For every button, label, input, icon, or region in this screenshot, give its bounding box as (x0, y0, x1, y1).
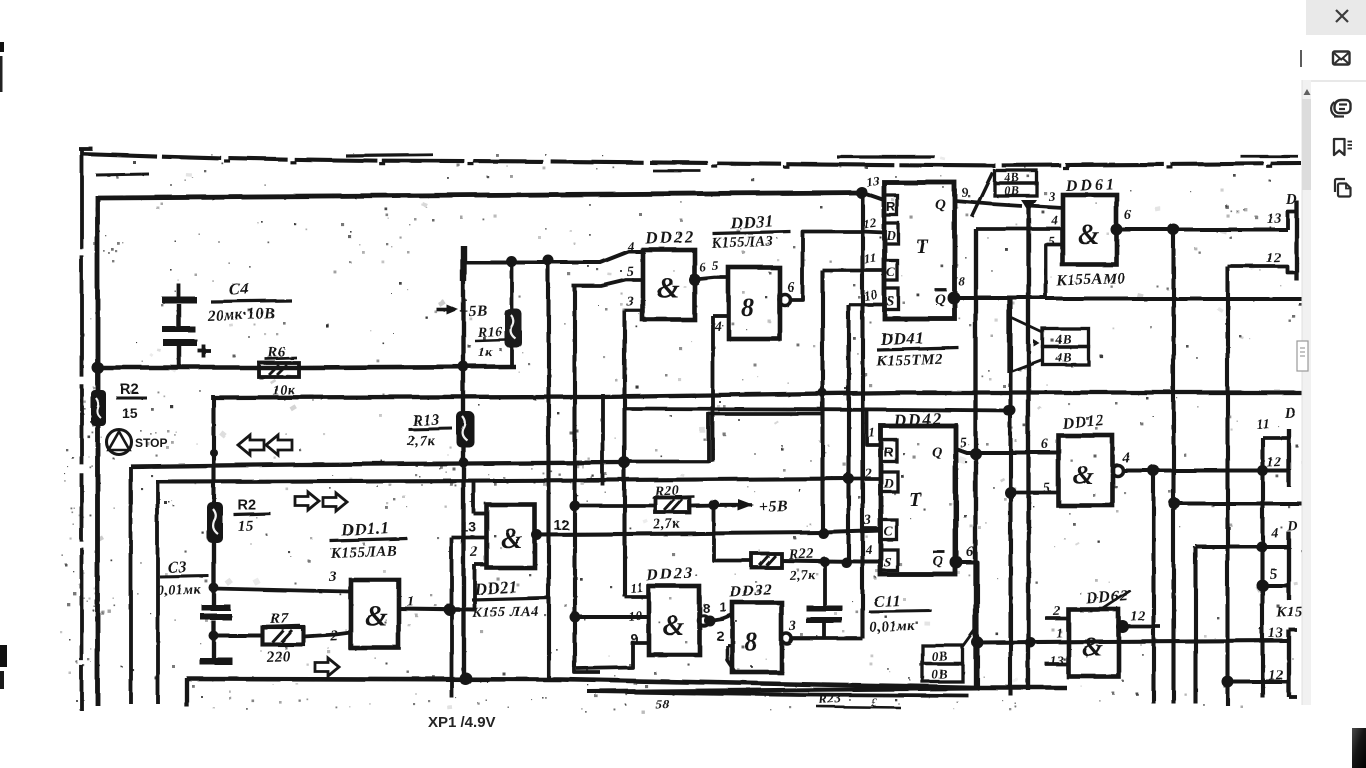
gate DD1.2 & symbol (1072, 459, 1093, 489)
svg-text:13: 13 (1268, 625, 1284, 641)
wire R20 row (574, 503, 655, 507)
pin label 12 DD41 (861, 214, 877, 231)
svg-text:9: 9 (961, 184, 969, 199)
svg-text:К155ЛАВ: К155ЛАВ (329, 543, 397, 561)
label DD21 (471, 577, 549, 621)
pin label 6 DD61 (1124, 208, 1132, 223)
gate DD3.1 & symbol (741, 293, 754, 322)
junction dot y480 x848 (843, 473, 854, 484)
STOP symbol (107, 430, 168, 455)
svg-text:D: D (1284, 191, 1297, 207)
svg-text:6: 6 (1124, 208, 1132, 223)
svg-text:R2: R2 (119, 380, 138, 397)
svg-text:5: 5 (959, 435, 967, 450)
pin label 12 T4 (1268, 667, 1284, 683)
svg-text:15: 15 (121, 404, 137, 420)
label R2 mid (233, 497, 270, 534)
label +5V top (436, 302, 488, 320)
svg-text:12: 12 (553, 516, 569, 532)
pin label 9 DD23 (630, 631, 638, 646)
junction dot DD22 out (688, 273, 700, 285)
svg-text:К155 ЛА4: К155 ЛА4 (471, 603, 539, 621)
pin label 1 DD1.1 (406, 593, 415, 609)
junction dot x548 top (543, 255, 554, 266)
label DD32 (727, 581, 772, 600)
wire vert x130 (128, 466, 132, 703)
wire y546 (1195, 544, 1288, 548)
callout stem x1008 (1006, 297, 1009, 372)
box T4 right edge (1288, 629, 1296, 696)
svg-text:D: D (885, 227, 896, 242)
svg-text:R16: R16 (476, 324, 502, 340)
wire +5V row y262 (463, 251, 642, 262)
pin label 5 DD61 (1048, 233, 1056, 248)
junction dot C3 top (208, 582, 218, 592)
wire DD1.1 pin3 (213, 588, 350, 591)
svg-text:12: 12 (1130, 608, 1146, 624)
pin label 4 DD61 (1050, 212, 1059, 227)
pin label 5 DD12 (1043, 481, 1051, 496)
arrow +5V mid (719, 485, 801, 515)
wire y642 long (977, 640, 1286, 642)
flipflop DD4.2 S cell (880, 549, 897, 570)
label DD61 (1064, 175, 1117, 194)
junction dot x1262 y470 (1257, 465, 1268, 476)
svg-text:DD23: DD23 (644, 562, 694, 584)
pin label 1 DD62 (1056, 625, 1064, 640)
gate DD3.1 box (728, 267, 779, 338)
wire DD32 pin2 (727, 645, 735, 672)
label K155AM0 (1055, 270, 1126, 289)
wire DD22 pin3 stub (624, 308, 642, 312)
label C3 (156, 558, 208, 598)
wire y635 R7 row (213, 632, 350, 636)
pin label 13 DD41 (864, 172, 880, 189)
label R2 left (115, 380, 146, 420)
svg-text:T: T (908, 488, 921, 510)
pin label 5 DD22 (626, 264, 634, 279)
svg-text:1: 1 (1056, 625, 1064, 640)
wire DD61 pin5 riser (1045, 244, 1062, 297)
svg-text:Q: Q (934, 291, 945, 307)
junction dot x1261 y546 (1256, 541, 1267, 552)
svg-text:4В: 4В (1054, 348, 1072, 364)
annotation bubble icon (1331, 100, 1350, 117)
pin label 6 DD12 (1041, 437, 1049, 452)
junction dot Qbar DD41 (947, 291, 960, 304)
junction dot y462 x624 (618, 456, 630, 468)
junction dot x1030 y642 (1025, 637, 1036, 648)
label R16 (474, 324, 505, 359)
flipflop DD4.2 Qbar label (932, 551, 944, 569)
hollow arrow left 1 (238, 435, 264, 455)
gate DD2.2 box (642, 249, 694, 319)
pin label 3 DD61 (1047, 188, 1056, 203)
box T2 right edge (1256, 405, 1296, 486)
svg-text:1: 1 (868, 424, 876, 439)
gate DD3.2 & symbol (744, 627, 757, 656)
overlay text XP1 (428, 714, 496, 731)
gate DD6.1 box (1062, 194, 1116, 264)
wire line y462 (130, 462, 624, 466)
pin label 4 DD22 (626, 238, 635, 253)
label D T1 (1284, 191, 1297, 207)
flipflop DD4.1 R cell (884, 195, 897, 215)
flipflop DD4.2 D cell (880, 471, 897, 491)
callout diag 0B (962, 625, 978, 647)
svg-text:2: 2 (863, 466, 872, 481)
svg-text:S: S (886, 294, 894, 309)
wire vert x157 (155, 481, 159, 703)
flipflop DD4.2 box (880, 425, 955, 574)
pin label 2 DD1.1 (329, 628, 339, 644)
bottom border left leg (184, 677, 188, 706)
gate DD2.1 & symbol (500, 523, 522, 554)
junction dot R7 left (208, 630, 218, 640)
svg-text:11: 11 (862, 249, 877, 266)
svg-text:R2: R2 (237, 497, 256, 513)
label C4 (206, 278, 291, 324)
label DD12 (1060, 412, 1105, 432)
wire x574 top corner (571, 279, 642, 285)
titlebar gray band (1306, 0, 1366, 35)
inner border left line (95, 195, 100, 705)
pin label 2 DD42 (863, 466, 872, 481)
pin label 4 DD12 (1121, 450, 1131, 466)
wire DD31 out (790, 231, 884, 299)
copy icon (1335, 179, 1351, 197)
wire vert rail x213 upper (211, 397, 215, 501)
envelope icon (1333, 52, 1350, 65)
junction dot x846 y562 (841, 557, 852, 568)
wire DD1.1 out (398, 608, 474, 609)
wire line y480 (155, 478, 848, 481)
pin label 2 DD21 (469, 544, 479, 560)
svg-text:8: 8 (741, 293, 754, 322)
capacitor C11 (806, 563, 842, 638)
gate DD3.2 box (732, 602, 781, 672)
junction dot x977 y642 (971, 636, 983, 648)
svg-text:0,01мк: 0,01мк (869, 617, 915, 635)
pin label 12 DD21 (553, 516, 569, 532)
pin label 9 DD41 (961, 184, 969, 199)
sidebar background (1311, 0, 1366, 768)
junction dot y262 x511 (506, 256, 517, 267)
scrollbar thumb (1302, 99, 1312, 190)
wire vert rail x548 (546, 260, 550, 679)
gate DD2.1 box (486, 504, 534, 567)
wire vert x1227 (1225, 266, 1229, 705)
junction dot DD61 out (1110, 223, 1122, 235)
pin label 6 DD31 (787, 280, 795, 295)
wire vert x975 (DD61 pin4 rail) (973, 228, 977, 690)
pin label 4 DD42 (864, 541, 873, 556)
svg-text:8: 8 (958, 273, 966, 288)
svg-text:1: 1 (719, 599, 726, 614)
svg-text:0В: 0В (931, 647, 948, 663)
pin label 6 DD42 (966, 544, 975, 560)
resistor R22 (751, 553, 781, 567)
pin label 1 DD42 (868, 424, 876, 439)
svg-text:2: 2 (329, 628, 339, 644)
wire DD23-DD32 (709, 614, 732, 620)
scrollbar small box (1297, 341, 1308, 371)
svg-text:T: T (915, 235, 928, 257)
pin label 2 DD32 (716, 628, 724, 643)
svg-text:DD1.1: DD1.1 (339, 517, 389, 539)
wire DD62 pin13 (1045, 662, 1068, 666)
svg-text:4: 4 (1121, 450, 1131, 466)
wire y585 (1262, 583, 1288, 587)
pin label 8 DD23 (702, 600, 709, 615)
label DD42 (891, 408, 942, 429)
svg-text:S: S (883, 555, 891, 570)
label R6 (264, 343, 296, 398)
svg-text:DD32: DD32 (727, 581, 772, 600)
callout boxes 4B-4B (1033, 328, 1088, 364)
wire DD61 pin4 (975, 226, 1062, 230)
svg-text:1: 1 (469, 491, 477, 506)
wire long line y394 (212, 392, 1301, 397)
svg-text:R13: R13 (411, 411, 440, 429)
gate DD2.3 out circle (698, 615, 708, 625)
bottom border line (186, 678, 1066, 687)
callout diag 2 (1008, 359, 1042, 372)
pin label 1 DD32 (719, 599, 726, 614)
pin label 1 DD21 (469, 491, 477, 506)
wire y503 (1174, 501, 1301, 505)
pin label 13 DD21 (460, 518, 476, 534)
outer frame left dash border (78, 148, 92, 710)
svg-text:D: D (1286, 519, 1298, 534)
flipflop DD4.2 Q label (931, 444, 942, 460)
svg-text:13: 13 (460, 518, 476, 534)
wire vert x848 (846, 304, 850, 563)
wire vert x1152 (1151, 470, 1155, 703)
svg-text:3: 3 (863, 513, 872, 528)
resistor R20 (655, 497, 689, 512)
svg-text:12: 12 (861, 214, 877, 231)
svg-text:+5В: +5В (758, 497, 788, 515)
svg-text:3: 3 (1047, 188, 1056, 203)
flipflop DD4.2 R cell (880, 439, 896, 461)
svg-text:&: & (662, 610, 684, 641)
svg-text:C: C (886, 264, 895, 279)
svg-text:0В: 0В (931, 665, 948, 681)
svg-text:+5В: +5В (459, 302, 488, 320)
wire DD22 out (694, 277, 728, 279)
label DD62 (1084, 587, 1130, 611)
wire vert rail x463 (+5V rail) (461, 262, 465, 678)
scan edge mark (1300, 50, 1302, 67)
svg-text:DD61: DD61 (1064, 175, 1117, 194)
ground bar C3 (199, 657, 232, 664)
resistor R6 (258, 362, 298, 376)
svg-text:DD42: DD42 (891, 408, 942, 429)
svg-text:R23: R23 (816, 689, 841, 706)
junction dot x1010 y492 (1004, 486, 1016, 498)
gate DD6.2 box (1068, 609, 1118, 676)
pin label 10 DD41 (862, 286, 878, 303)
slash mark on Q wire (971, 172, 992, 216)
svg-text:13: 13 (1266, 210, 1282, 226)
junction dot x824 y561 (819, 556, 829, 566)
svg-text:10к: 10к (272, 382, 296, 398)
svg-text:&: & (656, 271, 679, 304)
svg-text:4: 4 (1050, 212, 1059, 227)
junction dot bus left (91, 361, 103, 373)
svg-text:STOP: STOP (135, 436, 167, 450)
wire vert rail x574 (572, 285, 576, 667)
gate DD1.2 out circle (1112, 465, 1123, 476)
pin label 3 DD32 (788, 619, 797, 634)
junction dot x1153 y470 (1147, 464, 1159, 476)
svg-text:3: 3 (327, 568, 336, 584)
gate DD3.2 out circle (781, 633, 791, 643)
wire DD61 pin3 (1028, 205, 1062, 207)
svg-text:0,01мк: 0,01мк (156, 581, 201, 598)
svg-text:11: 11 (1256, 416, 1270, 431)
junction dot x574 y616 (569, 611, 580, 622)
callout diag 1 (1008, 316, 1042, 332)
wire vert x862 long (860, 194, 864, 638)
capacitor C3 (200, 604, 231, 658)
svg-text:6: 6 (787, 280, 795, 295)
svg-text:DD21: DD21 (472, 577, 517, 598)
wire vert x602 segment (600, 393, 604, 485)
wire D-pin stub (848, 476, 881, 480)
pin label 11 DD23 (629, 579, 644, 595)
wire R16 stem (509, 261, 513, 366)
svg-text:&: & (1077, 219, 1099, 250)
junction dot x1174 y503 (1168, 497, 1180, 509)
left edge mark 2 (0, 56, 3, 92)
callout boxes 4B-0B top (994, 169, 1036, 197)
svg-text:DD41: DD41 (878, 327, 923, 348)
pin label 13 T1 (1266, 210, 1282, 226)
bottom partial text scraps (655, 689, 900, 711)
wire corner at x212 (210, 394, 214, 399)
junction dot x1227 y681 (1221, 675, 1233, 687)
svg-text:&: & (1081, 631, 1102, 661)
pin label 13 DD62 (1050, 653, 1065, 668)
junction triangle at x1028 (1020, 199, 1036, 211)
wire vert x1028 (1026, 205, 1030, 690)
label DD1.1 (329, 517, 407, 561)
junction dot DD1.1 out (443, 603, 455, 615)
svg-text:58: 58 (655, 696, 670, 711)
label R22 (787, 545, 816, 582)
wire DD42 C pin stub (860, 526, 880, 530)
wire vert x1173 (1171, 229, 1175, 703)
left edge mark 1 (0, 42, 4, 52)
bookmark icon (1334, 139, 1352, 155)
outer frame top dash-dot border (80, 153, 1310, 174)
label DD22 (643, 226, 694, 247)
pin label 12 T1 (1266, 250, 1282, 266)
capacitor C4 plates (161, 283, 197, 367)
svg-text:5: 5 (712, 258, 720, 273)
wire DD23 pin10 (574, 614, 648, 618)
svg-text:4: 4 (713, 319, 722, 334)
wire Q out DD41 (954, 200, 1021, 205)
gate DD6.2 & symbol (1081, 631, 1102, 661)
svg-text:&: & (364, 599, 387, 632)
svg-text:С4: С4 (227, 278, 248, 298)
junction dot DD42 Qbar (950, 556, 963, 569)
svg-text:C: C (883, 523, 893, 538)
svg-text:К155ТМ2: К155ТМ2 (875, 351, 943, 369)
sidebar separator (1311, 80, 1366, 82)
junction dot x822 y392 (818, 388, 827, 397)
svg-text:4: 4 (864, 541, 873, 556)
+5V terminal bar (460, 245, 466, 281)
label K15 bottom (1275, 603, 1302, 620)
gate DD2.3 box (648, 586, 699, 654)
label DD41 (875, 327, 958, 369)
wire vert x866 R-pin (866, 410, 881, 444)
label DD23 (644, 562, 694, 584)
svg-text:220: 220 (265, 648, 291, 665)
pin label 3 DD42 (863, 513, 872, 528)
flipflop DD4.2 T letter (908, 488, 921, 510)
close icon (1336, 10, 1348, 22)
svg-text:15: 15 (237, 517, 254, 534)
black corner block (1352, 728, 1366, 768)
gate DD6.1 & symbol (1077, 219, 1099, 250)
wire line y408 (624, 408, 1008, 410)
pin label 5 DD42 (959, 435, 967, 450)
svg-text:К15: К15 (1275, 603, 1302, 620)
label R20 (652, 483, 694, 532)
svg-text:2: 2 (469, 544, 479, 560)
svg-text:Q: Q (934, 196, 945, 212)
wire R20 right (689, 504, 751, 505)
hollow arrow right 1 (295, 492, 319, 510)
flipflop DD4.1 Qbar label (934, 289, 946, 307)
flipflop DD4.1 T letter (915, 235, 928, 257)
wire DD42 Qbar path (587, 562, 977, 691)
junction dot x1173 y229 (1167, 223, 1179, 235)
junction dot bus at +5V rail (458, 361, 469, 372)
junction blob x213 (209, 448, 217, 456)
svg-text:5: 5 (1048, 233, 1056, 248)
svg-text:D: D (882, 475, 893, 490)
svg-text:DD12: DD12 (1060, 412, 1105, 432)
wire R20-R22 link (713, 504, 751, 560)
pin label 4 DD31 (713, 319, 722, 334)
wire C3 chain (211, 542, 215, 605)
wire Qbar long line y297 (1045, 296, 1301, 300)
gate DD1.1 box (350, 579, 398, 647)
svg-text:20мк·10В: 20мк·10В (206, 305, 275, 324)
inner border top line (97, 192, 861, 197)
wire Qbar out DD41 (948, 295, 1045, 299)
gate DD2.2 & symbol (656, 271, 679, 304)
label DD31 (710, 211, 790, 251)
flipflop DD4.1 D cell (884, 223, 898, 243)
pin label 13 T4 (1268, 625, 1284, 641)
wire DD62 pin2 (1045, 616, 1068, 620)
junction dot y408 end (1003, 405, 1014, 416)
wire DD31 pin4 stub (712, 313, 728, 317)
svg-text:К155АМ0: К155АМ0 (1055, 270, 1126, 289)
resistor R2 (mid) (206, 501, 222, 542)
resistor R7 (262, 627, 303, 644)
wire DD41 R pin (861, 192, 884, 200)
svg-text:&: & (1072, 459, 1093, 489)
resistor R16 (504, 308, 521, 347)
